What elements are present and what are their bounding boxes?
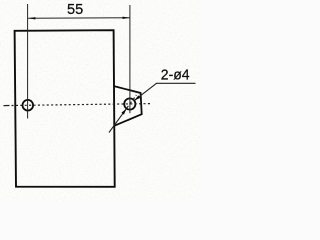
leader line from 2-ø4 label: [134, 83, 195, 100]
horizontal centerline through both holes: [4, 105, 10, 107]
svg-text:2-ø4: 2-ø4: [161, 66, 190, 83]
hole right (circle in tab): [124, 98, 135, 109]
arrowhead of leader at right hole: [134, 95, 140, 100]
svg-text:55: 55: [67, 1, 83, 18]
diagonal centerline lower segment through right hole: [109, 109, 126, 133]
arrowhead left of dimension 55: [28, 17, 35, 19]
extension line right (vertical through right hole): [129, 5, 131, 113]
main body outline (rectangle): [15, 30, 115, 187]
diagonal centerline dashes through right hole: [127, 95, 137, 108]
extension line left (vertical through left hole): [27, 4, 29, 119]
arrowhead right of dimension 55: [123, 17, 130, 19]
tab lug on right side: [114, 86, 142, 126]
dimension line 55: [28, 17, 130, 20]
hole left (circle): [23, 100, 34, 111]
arrowhead on diagonal pointing at right hole: [121, 109, 126, 115]
